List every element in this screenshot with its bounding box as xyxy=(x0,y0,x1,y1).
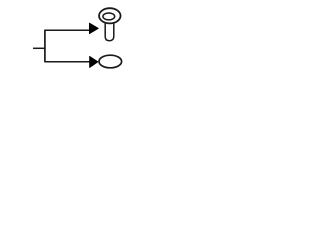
arrowhead: top branch xyxy=(89,23,98,34)
node: bottom ellipse xyxy=(99,55,122,68)
wire: left input stub xyxy=(33,47,46,49)
mirror symbol inner ellipse xyxy=(103,13,115,20)
background xyxy=(0,0,150,80)
mirror symbol stem (handle) xyxy=(105,23,114,41)
wire: bottom branch xyxy=(45,61,90,63)
mirror symbol outer ellipse xyxy=(99,8,121,23)
wire: top branch xyxy=(45,29,90,31)
arrowhead: bottom branch xyxy=(90,56,98,67)
wire: vertical bus xyxy=(44,30,46,63)
